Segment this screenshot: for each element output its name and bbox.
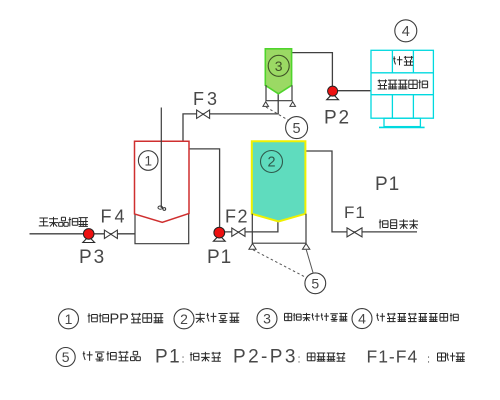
svg-text:P1: P1 <box>375 174 400 195</box>
legend item 3 circle <box>257 309 277 329</box>
legend text 科泰牌聚羧酸母液 <box>376 313 385 321</box>
svg-text:4: 4 <box>402 24 410 40</box>
svg-text:5: 5 <box>293 121 301 137</box>
legend text 母液小料计量罐 <box>285 313 292 320</box>
pump P1 <box>213 235 225 241</box>
svg-text::: : <box>298 354 301 366</box>
svg-text:3: 3 <box>263 311 271 327</box>
tank T2 support frame <box>252 214 306 243</box>
sensor circle 5 (bottom) <box>305 273 326 294</box>
legend text 计量传感器 <box>83 351 93 361</box>
tank T4 structure <box>371 50 433 127</box>
wire: tap water line via F1 up to tank2 <box>306 151 417 232</box>
svg-text:4: 4 <box>358 311 366 327</box>
svg-text:P2: P2 <box>324 108 351 129</box>
pump P3 <box>83 236 95 242</box>
svg-text:F1-F4: F1-F4 <box>367 347 419 367</box>
node circle 1 <box>138 151 158 171</box>
wire: product outlet line to storage <box>30 233 163 235</box>
valve F4 <box>104 230 117 238</box>
wire: tank2 outlet to F2/P1 <box>225 221 278 232</box>
svg-text:2: 2 <box>267 155 275 171</box>
legend item 4 circle <box>352 309 372 329</box>
svg-text::: : <box>182 354 185 366</box>
tank T2 left leg <box>249 244 256 250</box>
label 接自来水 (tap water) <box>379 219 388 228</box>
svg-text:2: 2 <box>180 311 188 327</box>
legend item 5 circle <box>56 348 75 367</box>
svg-text:P1: P1 <box>155 347 181 368</box>
svg-text:P3: P3 <box>79 247 106 268</box>
sensor leader (dashed) hopper to circle 5 <box>266 107 289 121</box>
svg-text:F4: F4 <box>101 207 128 227</box>
svg-text::: : <box>427 354 430 366</box>
svg-text:F2: F2 <box>225 207 249 227</box>
legend text 水计量罐 <box>196 312 205 322</box>
svg-text:1: 1 <box>144 153 152 168</box>
label 去成品储罐 (to product storage) <box>39 218 49 226</box>
wire: tank1 bottom outlet stub <box>161 222 163 234</box>
svg-text:1: 1 <box>65 311 73 327</box>
tank T1 support frame <box>135 214 189 244</box>
svg-text:3: 3 <box>275 58 283 74</box>
svg-text:5: 5 <box>62 349 70 365</box>
wire: P2 suction from tank4 <box>338 90 371 92</box>
wire: P2 discharge to hopper3 <box>292 53 333 87</box>
node circle 2 <box>261 151 283 173</box>
node circle 4 <box>395 20 417 42</box>
hopper T3 left leg <box>263 102 269 107</box>
svg-text:PP: PP <box>110 312 129 328</box>
agitator impeller <box>158 206 163 209</box>
valve F3 <box>197 110 210 118</box>
hopper T3 frame <box>266 85 292 100</box>
legend item 1 circle <box>59 309 79 329</box>
tank T1 body (red, steel-lined PP) <box>135 141 190 222</box>
sensor circle 5 (top) <box>286 117 308 139</box>
valve F1 <box>347 228 362 237</box>
label 科泰 (vendor) in tank4 <box>393 56 402 65</box>
svg-text:5: 5 <box>311 275 319 291</box>
agitator shaft <box>160 108 162 209</box>
node circle 3 <box>268 55 289 76</box>
wire: P1 discharge to tank1 top <box>189 149 220 227</box>
wire: hopper3 outlet down, F3 line, into tank1 top <box>183 94 278 148</box>
sensor leader dashed tank2 left leg to circle5 <box>253 250 306 277</box>
svg-text:P1: P1 <box>207 247 232 268</box>
tank T2 right leg <box>303 244 310 250</box>
sensor leader solid tank2 right leg to circle5 <box>306 250 313 274</box>
hopper T3 body (green) <box>265 49 291 94</box>
legend text 钢衬PP复配罐 <box>88 313 98 323</box>
valve F2 <box>232 228 245 236</box>
svg-text:F1: F1 <box>344 203 366 222</box>
hopper T3 right leg <box>290 102 296 107</box>
pump P2 <box>327 94 339 100</box>
legend item 2 circle <box>174 309 194 329</box>
svg-text:P2-P3: P2-P3 <box>233 347 298 368</box>
tank T2 body (cyan/yellow water tank) <box>252 141 306 221</box>
label 聚羧酸母液 in tank4 <box>378 80 387 90</box>
svg-text:F3: F3 <box>193 89 220 109</box>
